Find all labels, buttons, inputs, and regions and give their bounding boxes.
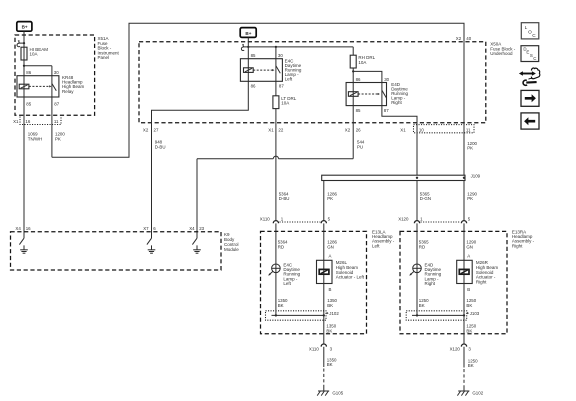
svg-text:Right: Right bbox=[512, 243, 523, 248]
svg-text:RD: RD bbox=[419, 244, 425, 249]
svg-text:B+: B+ bbox=[22, 25, 28, 30]
svg-text:J103: J103 bbox=[470, 311, 480, 316]
svg-text:TN/WH: TN/WH bbox=[28, 136, 42, 141]
module K9 Body Control Module (dashed enclosure) bbox=[11, 232, 240, 270]
svg-text:Module: Module bbox=[224, 247, 239, 252]
svg-text:86: 86 bbox=[251, 84, 256, 89]
svg-text:30: 30 bbox=[54, 70, 59, 75]
svg-text:A: A bbox=[329, 254, 332, 259]
assembly E13RA Headlamp Assembly - Right (dashed enclosure) bbox=[400, 229, 535, 333]
actuator M26R High Beam Solenoid Actuator - Right bbox=[457, 254, 499, 292]
fuse block X51A Fuse Block - Instrument Panel (dashed enclosure) bbox=[15, 35, 120, 115]
connector label X1 22 bbox=[268, 127, 284, 132]
splice pack J109 bbox=[322, 174, 481, 181]
wire 1350 BK (actuator side) bbox=[327, 298, 337, 308]
connector label X2 27 bbox=[143, 127, 159, 132]
svg-text:X110: X110 bbox=[309, 346, 319, 351]
svg-text:D-BU: D-BU bbox=[155, 144, 166, 149]
wire B+ underhood feed bus bbox=[247, 37, 353, 58]
svg-text:X4: X4 bbox=[189, 226, 195, 231]
svg-text:BK: BK bbox=[326, 328, 332, 333]
svg-text:Left: Left bbox=[283, 281, 291, 286]
splice J103 bbox=[406, 311, 480, 320]
svg-text:BK: BK bbox=[327, 362, 333, 367]
wire bus to E4C pin 30 bbox=[275, 47, 277, 59]
svg-text:C: C bbox=[533, 56, 536, 61]
ground G105 bbox=[317, 387, 343, 396]
relay E4D coil (pins 86-85) bbox=[348, 83, 358, 106]
svg-text:Actuator - Left: Actuator - Left bbox=[336, 275, 365, 280]
icon hand with arrow and wrench bbox=[519, 68, 540, 85]
svg-text:X7: X7 bbox=[143, 226, 149, 231]
lamp E4D Daytime Running Lamp - Right bbox=[409, 262, 441, 286]
wire 5364 RD (inside left assembly) bbox=[276, 231, 288, 315]
svg-text:PK: PK bbox=[55, 136, 61, 141]
icon LOC button bbox=[521, 23, 539, 39]
connector X1 (X51A bottom, pins 16 / 11) bbox=[13, 117, 61, 125]
svg-text:23: 23 bbox=[199, 226, 204, 231]
fuse block X50A Fuse Block - Underhood (dashed enclosure) bbox=[139, 41, 516, 122]
svg-text:J102: J102 bbox=[329, 311, 339, 316]
svg-text:Left: Left bbox=[372, 243, 380, 248]
connector label X2 40 (X50A top) bbox=[456, 36, 472, 41]
wire 1290 GN (inside right assembly) bbox=[464, 231, 477, 315]
svg-text:87: 87 bbox=[54, 101, 59, 106]
svg-text:30: 30 bbox=[384, 77, 389, 82]
wire 1200 PK (X1-11 to splice J109) bbox=[467, 141, 477, 151]
svg-text:86: 86 bbox=[26, 70, 31, 75]
svg-text:X4: X4 bbox=[15, 226, 21, 231]
svg-text:10A: 10A bbox=[281, 101, 289, 106]
svg-text:X2: X2 bbox=[456, 36, 462, 41]
svg-text:Relay: Relay bbox=[62, 89, 74, 94]
BCM driver switch and ground (X4-23) bbox=[192, 238, 200, 253]
wire 1250 BK (actuator side) bbox=[466, 298, 476, 308]
svg-text:D-BU: D-BU bbox=[279, 196, 290, 201]
wire 1200 PK (KR48 87 up-and-over to X50A X2-40) bbox=[52, 23, 464, 175]
svg-text:27: 27 bbox=[154, 127, 159, 132]
splice J102 bbox=[266, 311, 340, 320]
svg-text:87: 87 bbox=[384, 108, 389, 113]
connector label X7 6 (BCM) bbox=[143, 226, 156, 231]
connector label X4 16 (BCM) bbox=[15, 226, 31, 231]
svg-text:A: A bbox=[467, 254, 470, 259]
BCM driver switch and ground (X7-6) bbox=[147, 238, 155, 253]
wire 1069 TN/WH (KR48 85 to BCM X4-16) bbox=[24, 97, 42, 238]
lamp E4C Daytime Running Lamp - Left bbox=[268, 262, 300, 286]
wire 1350 BK (X110-3 to G105) bbox=[324, 347, 337, 387]
wire B+ to HI BEAM fuse bbox=[23, 31, 25, 47]
wire 1350 BK (lamp side) bbox=[278, 298, 288, 308]
battery feed B+ (instrument panel) bbox=[17, 22, 32, 32]
node RH DRL output / branch to E4D pin 30 bbox=[352, 70, 382, 82]
wire E4D 87 to X1-10 bbox=[382, 106, 417, 176]
relay E4C Daytime Running Lamp - Left bbox=[240, 53, 301, 88]
icon DESC button bbox=[521, 46, 539, 62]
wire E4C 86 to X2-27 (948 D-BU) bbox=[152, 81, 249, 238]
svg-text:85: 85 bbox=[356, 108, 361, 113]
wire 1286 PK (J109 to X110-5) bbox=[324, 181, 338, 221]
bus tap hook symbol (X51A) bbox=[17, 40, 24, 47]
svg-text:Right: Right bbox=[391, 100, 402, 105]
svg-text:BK: BK bbox=[278, 303, 284, 308]
svg-text:22: 22 bbox=[278, 127, 283, 132]
fuse RH DRL 10A bbox=[350, 47, 375, 72]
svg-text:RD: RD bbox=[278, 244, 284, 249]
relay E4D Daytime Running Lamp - Right bbox=[346, 77, 408, 113]
relay E4C actuator dashed link bbox=[253, 69, 274, 71]
svg-text:X120: X120 bbox=[450, 346, 461, 351]
svg-text:PK: PK bbox=[467, 146, 473, 151]
fuse LT DRL 10A bbox=[273, 81, 297, 108]
svg-text:Right: Right bbox=[476, 279, 487, 284]
svg-text:11: 11 bbox=[466, 127, 471, 132]
svg-text:16: 16 bbox=[25, 119, 30, 124]
wire crossover hop (544 over 5364) bbox=[273, 156, 278, 159]
svg-text:X2: X2 bbox=[143, 127, 149, 132]
connector X1 (X50A bottom, pins 10 / 11) bbox=[400, 125, 474, 133]
wire 544 PU (E4D 85 via X2-26 to BCM X4-23) bbox=[197, 106, 365, 239]
svg-text:PK: PK bbox=[467, 196, 473, 201]
BCM driver switch and ground (X4-16) bbox=[19, 238, 27, 253]
battery feed B+ (underhood) bbox=[240, 28, 256, 38]
svg-text:BK: BK bbox=[327, 303, 333, 308]
wire 1250 BK (lamp side) bbox=[419, 298, 429, 308]
relay KR48 Headlamp High Beam Relay bbox=[17, 70, 85, 106]
icon back arrow button bbox=[521, 113, 539, 129]
svg-text:PK: PK bbox=[327, 196, 333, 201]
svg-text:BK: BK bbox=[419, 303, 425, 308]
svg-text:87: 87 bbox=[279, 84, 284, 89]
svg-text:B+: B+ bbox=[245, 31, 251, 36]
svg-text:G102: G102 bbox=[472, 390, 483, 395]
svg-text:B: B bbox=[329, 287, 332, 292]
svg-text:30: 30 bbox=[278, 53, 283, 58]
wire 1350 BK (J102 to X110-3) bbox=[324, 315, 337, 344]
svg-text:11: 11 bbox=[54, 119, 59, 124]
svg-text:BK: BK bbox=[466, 303, 472, 308]
fuse HI BEAM 10A bbox=[21, 47, 48, 66]
svg-text:Panel: Panel bbox=[98, 55, 110, 60]
connector X110 (pins 1 / 5) bbox=[260, 216, 331, 231]
actuator M26L High Beam Solenoid Actuator - Left bbox=[317, 254, 365, 292]
svg-text:D-GN: D-GN bbox=[420, 196, 431, 201]
svg-text:16: 16 bbox=[26, 226, 31, 231]
svg-text:Left: Left bbox=[285, 77, 293, 82]
ground G102 bbox=[457, 387, 483, 396]
relay KR48 coil (pins 86-85) bbox=[19, 76, 29, 97]
svg-text:BK: BK bbox=[468, 363, 474, 368]
bus tap hook symbol (X50A) bbox=[241, 44, 248, 51]
wire 1250 BK (J103 to X120-3) bbox=[464, 315, 477, 344]
relay E4D actuator dashed link bbox=[358, 93, 380, 95]
svg-text:X2: X2 bbox=[345, 127, 351, 132]
wire 1250 BK (X120-3 to G102) bbox=[464, 347, 478, 387]
wire 1286 GN (inside left assembly) bbox=[324, 231, 338, 315]
svg-text:86: 86 bbox=[356, 77, 361, 82]
wire 5365 RD (inside right assembly) bbox=[417, 231, 429, 315]
assembly E13LA Headlamp Assembly - Left (dashed enclosure) bbox=[261, 229, 395, 333]
svg-text:X1: X1 bbox=[400, 127, 406, 132]
svg-text:X1: X1 bbox=[268, 127, 274, 132]
wire 5364 D-BU (LT DRL fuse via X1-22 to X110-1) bbox=[276, 109, 290, 221]
relay E4C switch (pins 30-87) bbox=[276, 59, 280, 82]
svg-text:B: B bbox=[467, 287, 470, 292]
connector X120 (pins 1 / 5) bbox=[398, 216, 471, 231]
svg-text:10: 10 bbox=[419, 127, 424, 132]
svg-text:40: 40 bbox=[466, 36, 471, 41]
connector X110 pin 3 bbox=[309, 344, 333, 351]
svg-text:85: 85 bbox=[26, 101, 31, 106]
svg-text:X120: X120 bbox=[398, 216, 409, 221]
svg-text:PU: PU bbox=[357, 144, 363, 149]
wire 5365 D-GN (J109 to X120-1) bbox=[417, 181, 431, 221]
svg-text:X1: X1 bbox=[13, 119, 19, 124]
connector label X2 26 bbox=[345, 127, 361, 132]
svg-text:26: 26 bbox=[356, 127, 361, 132]
svg-text:GN: GN bbox=[466, 244, 473, 249]
node fuse output / branch to pin 30 bbox=[23, 65, 52, 76]
svg-text:85: 85 bbox=[251, 53, 256, 58]
svg-text:G105: G105 bbox=[332, 390, 343, 395]
svg-text:Underhood: Underhood bbox=[490, 51, 513, 56]
icon forward arrow button bbox=[521, 90, 539, 106]
svg-text:Right: Right bbox=[425, 281, 436, 286]
relay E4D switch (pins 30-87) bbox=[382, 83, 386, 106]
relay E4C coil (pins 85-86) bbox=[244, 59, 254, 82]
svg-text:10A: 10A bbox=[358, 60, 366, 65]
relay KR48 actuator dashed link bbox=[29, 85, 52, 87]
svg-text:GN: GN bbox=[327, 244, 334, 249]
wire 1290 PK (J109 to X120-5) bbox=[464, 181, 478, 221]
connector label X4 23 (BCM) bbox=[189, 226, 204, 231]
connector X120 pin 3 bbox=[450, 344, 472, 351]
svg-text:X110: X110 bbox=[260, 216, 270, 221]
svg-text:J109: J109 bbox=[471, 174, 481, 179]
svg-text:10A: 10A bbox=[30, 52, 38, 57]
svg-text:BK: BK bbox=[466, 328, 472, 333]
relay KR48 switch (pins 30-87) bbox=[52, 76, 56, 97]
